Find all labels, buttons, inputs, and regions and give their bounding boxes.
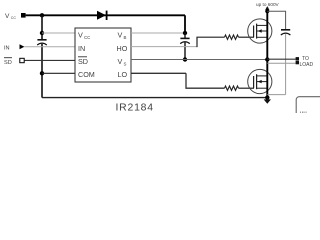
wire IN [24,46,75,48]
node Vcc label [5,13,16,20]
pin label VS [118,57,127,67]
wire Vcc pin [42,32,75,34]
capacitor C2 bootstrap [180,38,190,43]
capacitor C3 bus [281,30,291,35]
wire ground rail [42,97,267,99]
wire LO pin [131,72,186,74]
wire Vcc rail [26,14,185,16]
svg-text:IR2184: IR2184 [116,103,154,114]
wire HV cap branch top [267,11,285,29]
pin label VB [118,31,127,41]
label TO LOAD [300,56,314,68]
wire C3 bottom lead down [285,34,287,95]
resistor R1 [225,35,239,39]
junction dot HV branch [265,9,269,13]
junction dot rail/C1 [40,13,44,17]
svg-text:IN: IN [78,44,85,53]
wire load bottom [267,62,295,64]
wire HO pin [131,46,197,48]
load terminal top [296,57,299,60]
wire VB pin [131,32,185,34]
capacitor C1 [37,40,47,45]
junction dot ground node [265,95,269,99]
svg-text:B: B [124,35,127,40]
wire C2 top lead [184,33,186,38]
transistor Q2 low-side MOSFET [248,69,272,93]
load terminal bottom [296,61,299,64]
pin label Vcc [78,31,90,41]
svg-text:up to 600V: up to 600V [256,2,280,7]
junction dot Vcc pin branch [40,31,44,35]
resistor R2 [225,86,239,90]
svg-text:CC: CC [84,35,90,40]
junction dot C2/VS [183,57,187,61]
svg-text:SD: SD [78,57,88,66]
op-amp U1 IR2184 box [75,28,131,82]
diode D1 bootstrap [97,11,107,20]
svg-text:COM: COM [78,70,95,79]
wire C1 top lead [41,15,43,39]
wire R2 to gate Q2 [239,87,255,89]
wire SD [24,59,75,61]
wire HV main vertical [266,8,268,98]
svg-text:uu: uu [300,111,307,113]
wire C1 bottom to ground rail [41,44,43,98]
svg-text:SD: SD [4,60,12,66]
svg-text:V: V [78,31,83,40]
svg-text:LOAD: LOAD [300,62,314,68]
Vcc terminal [21,13,26,18]
ground [264,98,271,104]
svg-text:IN: IN [4,45,10,51]
svg-text:LO: LO [118,70,128,79]
pin label SD [78,57,88,66]
junction dot switch node [265,57,269,61]
junction dot COM branch [40,71,44,75]
node up to 600V arrow [265,6,269,10]
wire LO drop [186,73,225,88]
svg-text:V: V [118,31,123,40]
wire C2 bottom lead [184,42,186,59]
wire COM [42,72,75,74]
node SD label [4,58,12,66]
wire C3 return to source node [267,94,285,96]
wire rail corner down to VB node [184,15,186,33]
transistor Q1 high-side MOSFET [248,19,272,43]
svg-text:HO: HO [117,44,128,53]
junction dot VB node [183,31,187,35]
svg-text:V: V [5,13,10,20]
corner frame fragment bottom right [296,97,320,123]
svg-text:V: V [118,57,123,66]
SD terminal [20,58,24,62]
svg-text:S: S [124,62,127,67]
wire VS [131,59,267,61]
IN terminal [20,44,25,49]
svg-text:CC: CC [11,16,17,20]
wire R1 to gate Q1 [239,36,255,38]
wire HO riser [197,37,225,47]
wire load top [267,58,295,60]
